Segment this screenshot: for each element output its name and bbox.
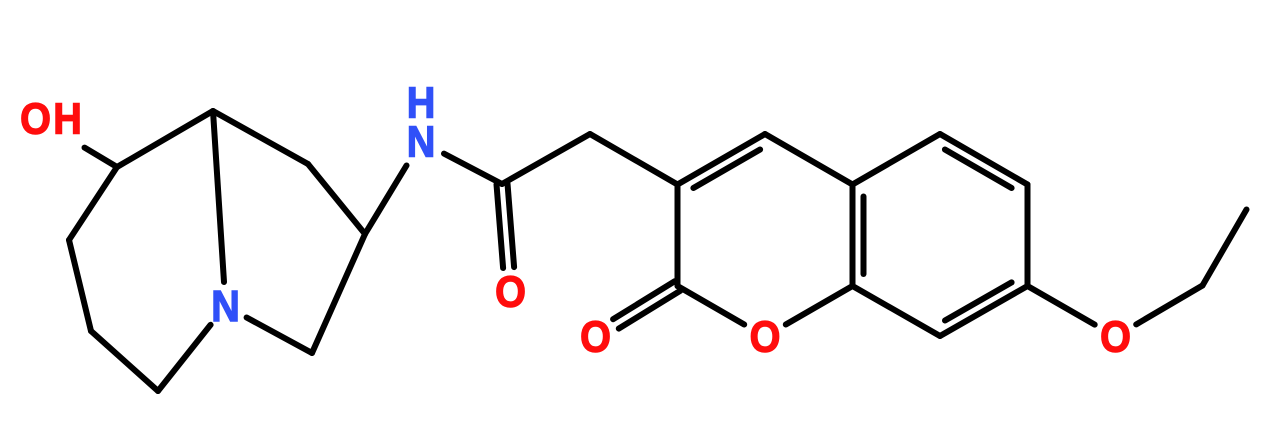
bond Ome-CH2e [1136, 286, 1202, 325]
bond C5-B [312, 234, 365, 353]
bond C4l-N1 [158, 325, 211, 391]
bond C5b=C6 [940, 134, 1028, 185]
bond Orng-C8a [786, 286, 853, 325]
bond C7=C8 [940, 286, 1028, 336]
bond Cam=Oam [497, 184, 504, 268]
svg-text:O: O [1100, 312, 1131, 361]
svg-text:O: O [750, 312, 781, 361]
bond L-C2l [69, 167, 117, 240]
bond C8-C8a [853, 286, 941, 336]
bond C3l-C4l [91, 331, 158, 391]
bond C7-Ome [1028, 286, 1095, 325]
bond C4a-C5b [853, 134, 941, 185]
bond CH2-C3 [590, 134, 678, 185]
bond NH-Cam [444, 154, 502, 184]
bond C2l-C3l [69, 240, 91, 331]
svg-text:H: H [53, 94, 82, 143]
svg-text:O: O [580, 312, 611, 361]
bond B-R [308, 164, 365, 234]
bond N1-T bridge [213, 111, 224, 282]
bond OH-CH(L) [85, 148, 118, 167]
bond C4-C4a [765, 134, 853, 185]
bond C2=Olac [613, 281, 675, 319]
bond C3-C2 [675, 185, 681, 287]
bond L-T [117, 111, 213, 167]
svg-text:N: N [211, 281, 240, 330]
bond CH2e-CH3e [1203, 210, 1247, 286]
bond Cam-CH2 [502, 134, 590, 184]
svg-text:O: O [20, 94, 51, 143]
bond C3=C4 [678, 134, 766, 185]
bond T-R [213, 111, 308, 164]
bond C6-C7 [1025, 185, 1031, 287]
bond C2-Orng [678, 286, 745, 325]
svg-text:H: H [407, 78, 436, 127]
bond N1-C5 [247, 318, 312, 354]
svg-text:O: O [495, 267, 526, 316]
bond B-NH [365, 166, 407, 235]
bond C8a=C4a [850, 185, 856, 287]
